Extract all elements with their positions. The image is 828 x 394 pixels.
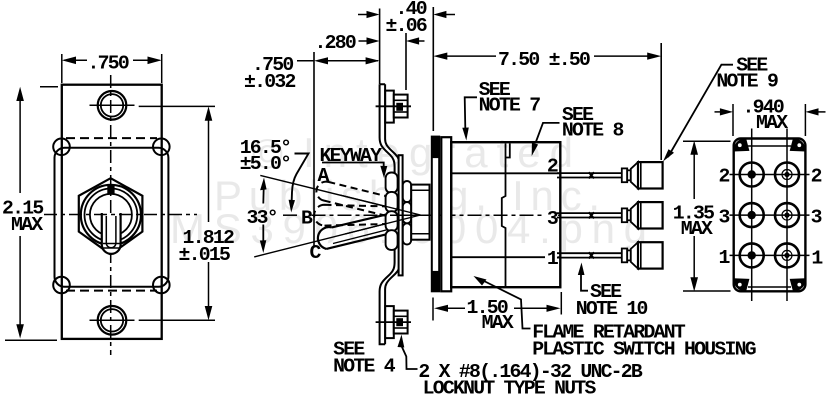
hex nut — [79, 178, 143, 254]
switch frame plate — [432, 137, 439, 292]
svg-text:KEYWAY: KEYWAY — [320, 145, 383, 167]
switch housing body — [451, 142, 560, 287]
top bracket screw nut — [376, 95, 411, 118]
extension line lever tip — [313, 52, 315, 247]
svg-text:NOTE 7: NOTE 7 — [479, 94, 541, 116]
bushing — [411, 185, 429, 240]
svg-text:7.50 ±.50: 7.50 ±.50 — [498, 49, 590, 71]
33 arrow down — [260, 225, 267, 254]
dimension .750 top — [62, 52, 162, 83]
flange corner circle bottom-right — [153, 277, 170, 294]
housing front wall — [441, 137, 451, 291]
svg-text:33°: 33° — [247, 207, 277, 229]
svg-text:MAX: MAX — [756, 112, 788, 134]
flange corner circle top-right — [153, 139, 170, 156]
row line 1 — [730, 254, 810, 256]
wire row 1 — [557, 252, 622, 258]
flange dashed line bottom — [66, 290, 157, 292]
dimension 1.35 MAX — [673, 141, 731, 292]
svg-text:MAX: MAX — [482, 312, 514, 334]
svg-text:3: 3 — [811, 207, 822, 229]
SEE NOTE 7 — [462, 79, 540, 141]
svg-text:.750: .750 — [88, 52, 129, 74]
bushing bore circle — [90, 194, 132, 236]
dimension .750 +-.032 — [244, 54, 380, 93]
lever position A (dashed) — [316, 182, 388, 217]
mounting bracket S-shape — [380, 84, 401, 344]
dimension .40 +-.06 — [358, 0, 455, 37]
svg-text:NOTE 8: NOTE 8 — [562, 120, 624, 142]
dimension .280 — [315, 32, 425, 54]
dimension .940 MAX — [715, 97, 826, 137]
FLAME RETARDANT leader — [474, 276, 756, 360]
svg-text:LOCKNUT TYPE NUTS: LOCKNUT TYPE NUTS — [423, 378, 597, 394]
extension line bracket face — [379, 9, 381, 85]
corner mark bottom-right — [792, 280, 805, 290]
svg-text:3: 3 — [719, 207, 730, 229]
left terminal labels — [719, 166, 731, 270]
corner mark bottom-left — [735, 280, 748, 290]
inner top line — [748, 145, 791, 147]
terminal row 1 — [622, 242, 663, 268]
dimension 7.50 +-.50 — [433, 49, 661, 71]
column centerline 2 — [786, 129, 788, 302]
bottom bracket screw nut — [376, 311, 411, 334]
top bracket screw washer — [385, 91, 394, 123]
horizontal centerline left view — [44, 214, 197, 216]
svg-text:±.032: ±.032 — [244, 71, 295, 93]
leader arc 16.5 — [289, 154, 309, 213]
extension line terminal end — [660, 43, 662, 160]
centerline vertical — [110, 75, 112, 355]
row line 2 — [730, 174, 810, 176]
extension line nut face — [405, 33, 407, 90]
switch flange outline — [55, 148, 169, 287]
flange corner circle bottom-left — [53, 277, 70, 294]
svg-text:NOTE 4: NOTE 4 — [333, 355, 396, 377]
33 arrow up — [260, 178, 267, 204]
flange dashed line top — [66, 137, 157, 139]
keyway notch — [107, 186, 114, 195]
dimension 2.15 MAX — [2, 87, 58, 341]
svg-text:±.015: ±.015 — [179, 244, 230, 266]
lever position B (dashed) — [314, 205, 390, 226]
locknut stack rear hex — [386, 173, 398, 250]
extension line housing face — [432, 7, 434, 131]
wire row 3 — [557, 212, 622, 218]
bottom bracket screw washer — [385, 306, 394, 338]
terminal circles — [740, 163, 799, 268]
corner mark top-right — [792, 140, 805, 150]
svg-text:3: 3 — [547, 208, 558, 230]
terminal row 2 — [622, 162, 663, 188]
SEE NOTE 10 — [576, 263, 648, 321]
SEE NOTE 4 — [333, 339, 396, 378]
panel plate — [62, 85, 162, 339]
terminal row 3 — [622, 202, 663, 228]
terminal block outline — [734, 139, 806, 292]
centerline B horizontal — [283, 214, 300, 216]
top mounting hole — [90, 91, 135, 120]
angle line C — [254, 215, 420, 257]
housing seam — [502, 144, 510, 287]
KEYWAY label and leader — [320, 145, 388, 178]
svg-text:2: 2 — [547, 155, 558, 177]
svg-text:MAX: MAX — [11, 214, 43, 236]
dimension 1.812 — [139, 106, 234, 320]
2X locknut leader and text — [398, 335, 643, 394]
corner mark top-left — [735, 140, 748, 150]
bushing circle 2 — [85, 189, 138, 242]
svg-text:.280: .280 — [315, 32, 356, 54]
locknut stack front hex — [403, 181, 411, 245]
svg-text:NOTE 10: NOTE 10 — [576, 298, 648, 320]
bushing outer circle — [81, 185, 141, 245]
housing section line row 2 — [451, 172, 560, 174]
column centerline 1 — [751, 129, 753, 302]
svg-text:PLASTIC SWITCH HOUSING: PLASTIC SWITCH HOUSING — [532, 338, 756, 360]
washer — [399, 155, 403, 275]
row line 3 — [730, 214, 810, 216]
housing section line row 1 — [451, 256, 560, 258]
svg-text:2: 2 — [811, 166, 822, 188]
svg-text:2: 2 — [719, 166, 730, 188]
wire row 2 — [557, 172, 622, 178]
SEE NOTE 8 — [532, 104, 624, 156]
inner bottom line — [748, 286, 791, 288]
right terminal labels — [811, 166, 824, 270]
SEE NOTE 9 — [663, 55, 778, 162]
dimension 1.50 MAX — [433, 292, 561, 334]
angle line A — [260, 175, 420, 215]
toggle lever end-on — [102, 213, 121, 254]
angle lines over stack — [340, 195, 452, 234]
svg-text:±5.0°: ±5.0° — [240, 153, 291, 175]
svg-text:NOTE 9: NOTE 9 — [716, 71, 778, 93]
flange corner circle top-left — [53, 139, 70, 156]
bottom mounting hole — [90, 306, 135, 335]
svg-text:MAX: MAX — [681, 218, 713, 240]
svg-text:±.06: ±.06 — [386, 15, 427, 37]
lever position C (solid) — [318, 213, 392, 249]
